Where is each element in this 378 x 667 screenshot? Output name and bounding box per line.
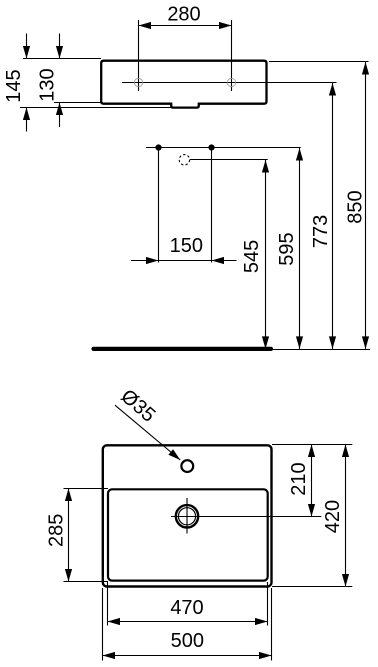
- svg-text:420: 420: [322, 500, 344, 533]
- svg-text:145: 145: [3, 69, 25, 102]
- svg-text:Ø35: Ø35: [116, 385, 159, 426]
- svg-text:285: 285: [45, 514, 67, 547]
- svg-text:280: 280: [167, 4, 200, 26]
- svg-text:210: 210: [288, 462, 310, 495]
- svg-text:470: 470: [170, 597, 203, 619]
- svg-text:130: 130: [36, 68, 58, 101]
- svg-text:850: 850: [344, 190, 366, 223]
- svg-text:150: 150: [170, 235, 203, 257]
- svg-text:545: 545: [241, 240, 263, 273]
- svg-text:595: 595: [276, 232, 298, 265]
- svg-text:500: 500: [171, 630, 204, 652]
- svg-text:773: 773: [310, 215, 332, 248]
